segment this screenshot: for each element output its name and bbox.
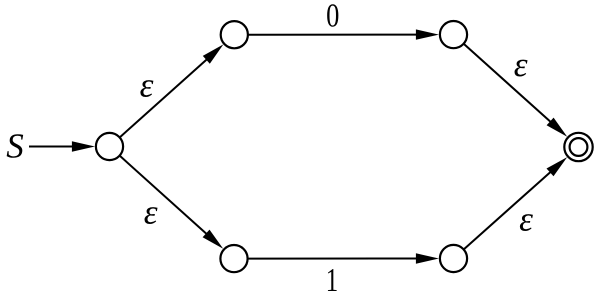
svg-text:ε: ε	[519, 199, 533, 238]
state q3 (bottom left)	[220, 245, 247, 272]
wire q2 to accept (epsilon)	[464, 44, 552, 123]
svg-text:1: 1	[326, 261, 338, 296]
wire q4 to accept (epsilon)	[464, 171, 552, 249]
svg-text:S: S	[6, 127, 24, 166]
arrowhead q2 to accept (epsilon)	[547, 118, 568, 137]
svg-text:ε: ε	[514, 45, 528, 84]
svg-text:ε: ε	[144, 193, 158, 232]
state accept (double circle)	[564, 133, 592, 161]
arrowhead q0 to q3 (epsilon)	[203, 230, 224, 249]
state q2 (top right)	[440, 21, 467, 48]
wire start arrow	[29, 146, 74, 148]
state q4 (bottom right)	[440, 245, 467, 272]
wire q0 to q3 (epsilon)	[120, 156, 208, 235]
svg-text:ε: ε	[140, 65, 154, 104]
wire q3 to q4 (1)	[248, 258, 418, 260]
arrowhead q1 to q2 (0)	[416, 29, 439, 39]
arrowhead q3 to q4 (1)	[416, 253, 439, 263]
arrowhead q0 to q1 (epsilon)	[203, 44, 224, 63]
arrowhead q4 to accept (epsilon)	[547, 157, 568, 176]
wire q1 to q2 (0)	[248, 34, 418, 36]
arrowhead start arrow	[72, 141, 95, 151]
svg-text:0: 0	[326, 0, 339, 34]
wire q0 to q1 (epsilon)	[120, 59, 208, 138]
state q0 (start)	[96, 133, 123, 160]
state q1 (top left)	[221, 21, 248, 48]
